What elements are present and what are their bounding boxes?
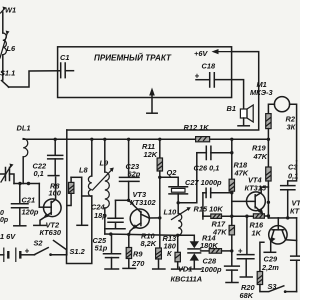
capacitor C26: [194, 146, 232, 172]
svg-text:+6V: +6V: [194, 49, 208, 58]
svg-text:1K: 1K: [252, 229, 262, 238]
node C31 bottom: [286, 216, 289, 219]
wire VT3 collector: [149, 217, 160, 219]
wire C24 to VT3 base: [116, 199, 129, 201]
node VT3 collector: [158, 216, 161, 219]
node Q2 bottom: [177, 201, 180, 204]
battery GB1: [0, 247, 30, 263]
+6V supply label and arrow: [194, 49, 232, 58]
svg-text:VD1: VD1: [178, 265, 192, 274]
capacitor C1: [60, 53, 74, 78]
wire L8 bottom tap: [82, 195, 92, 197]
transistor VT2: [39, 177, 62, 237]
svg-text:B1: B1: [227, 104, 236, 113]
wire tuned-circuit node: [14, 183, 39, 185]
capacitor C21: [12, 184, 39, 226]
wire power riser: [66, 130, 68, 255]
svg-text:МКЭ-3: МКЭ-3: [250, 88, 273, 97]
svg-text:К: К: [167, 249, 172, 258]
switch S2: [34, 239, 52, 257]
receiver block box: [58, 47, 232, 98]
wire oscillator common rail: [105, 234, 178, 235]
node R16 junction: [267, 214, 270, 217]
crystal Q2: [160, 168, 188, 203]
svg-text:0p: 0p: [0, 217, 9, 224]
svg-text:ПРИЕМНЫЙ ТРАКТ: ПРИЕМНЫЙ ТРАКТ: [94, 53, 172, 62]
microphone M1 МКЭ-3: [250, 80, 297, 161]
wire VT4/VT5 coupling: [268, 217, 296, 219]
wire S2 to power riser: [51, 254, 67, 256]
ground L8 tap: [77, 177, 88, 225]
resistor R15: [194, 205, 254, 220]
svg-text:8,2K: 8,2K: [141, 239, 157, 248]
wire L6 to S1.1: [2, 55, 4, 80]
svg-text:R9: R9: [133, 250, 143, 259]
wire varicap to R14: [201, 250, 210, 252]
resistor R8: [49, 177, 82, 205]
svg-text:120p: 120p: [22, 208, 39, 217]
svg-text:C27 1000p: C27 1000p: [185, 178, 222, 187]
svg-text:КТ: КТ: [290, 206, 300, 215]
svg-text:DL1: DL1: [17, 124, 31, 133]
transistor VT5: [269, 199, 303, 252]
switch S1.2: [54, 241, 86, 257]
svg-text:Q2: Q2: [167, 168, 178, 177]
svg-text:47K: 47K: [212, 228, 227, 237]
wire right column to C30: [296, 218, 298, 256]
resistor R18: [229, 161, 249, 192]
switch S1.1: [0, 69, 15, 88]
svg-text:12K: 12K: [144, 150, 158, 159]
svg-text:0: 0: [0, 210, 4, 217]
svg-text:270: 270: [131, 259, 145, 268]
node Q2 top: [158, 176, 161, 179]
inductor L8: [79, 139, 92, 196]
resistor R17: [212, 220, 235, 237]
resistor R16: [250, 214, 269, 238]
resistor R20: [240, 242, 269, 300]
transistor VT3: [129, 190, 157, 234]
capacitor C31: [281, 161, 299, 218]
svg-text:C26 0,1: C26 0,1: [194, 164, 220, 173]
resistor R14: [200, 234, 232, 254]
node VT4 collector junction: [267, 201, 270, 204]
wire C26 branch down: [178, 153, 197, 203]
svg-text:R12 1K: R12 1K: [184, 123, 210, 132]
resistor R12: [184, 123, 210, 142]
transistor VT4: [232, 176, 269, 215]
svg-text:1000p: 1000p: [201, 265, 222, 274]
svg-text:47K: 47K: [253, 152, 268, 161]
svg-text:0,1: 0,1: [34, 169, 44, 178]
svg-text:L8: L8: [79, 166, 89, 175]
resistor R9: [123, 234, 145, 268]
capacitor C18: [195, 62, 216, 88]
svg-text:1 6V: 1 6V: [0, 232, 16, 241]
capacitor C25: [93, 234, 121, 269]
trimmer capacitor (edge, cut): [0, 164, 14, 225]
svg-text:C1: C1: [60, 53, 69, 62]
node C29 tap: [245, 215, 248, 218]
svg-text:КВС111А: КВС111А: [171, 275, 203, 284]
wire main horizontal bus (bus2): [23, 138, 268, 140]
speaker B1: [227, 104, 254, 126]
wire battery to S2: [20, 254, 34, 256]
svg-text:W1: W1: [5, 6, 16, 15]
node VT3 base: [127, 199, 130, 202]
svg-text:L6: L6: [7, 44, 17, 53]
svg-text:2,2m: 2,2m: [261, 263, 279, 272]
resistor R2: [266, 114, 296, 140]
svg-text:R15 10K: R15 10K: [194, 205, 224, 214]
wire VT2 base riser: [38, 184, 40, 208]
inductor L6: [0, 31, 16, 59]
resistor R13: [163, 234, 184, 269]
node bus2 junctions: [54, 138, 271, 141]
wire S1.2 to L8 return: [67, 196, 92, 264]
wire C18 to speaker B1: [214, 80, 243, 109]
svg-text:47K: 47K: [234, 168, 249, 177]
wire antenna to L6: [2, 12, 4, 33]
svg-text:51p: 51p: [95, 244, 108, 253]
node rail junctions: [109, 232, 112, 235]
svg-text:18p: 18p: [94, 211, 107, 220]
resistor R11: [142, 139, 163, 248]
capacitor C28: [201, 257, 240, 283]
inductor L10: [164, 203, 191, 235]
wire main right column: [231, 139, 233, 265]
node column junctions: [230, 151, 233, 253]
inductor DL1: [17, 124, 31, 184]
node dots tuned circuit: [18, 182, 21, 185]
svg-text:S1.1: S1.1: [0, 69, 15, 78]
varicap VD1 КВС111А: [171, 235, 203, 283]
svg-text:3К: 3К: [287, 123, 296, 132]
node oscillator output arrow into receiver: [147, 88, 157, 114]
svg-text:C18: C18: [202, 62, 216, 71]
svg-text:КТ315: КТ315: [245, 184, 267, 193]
wire +6V rail (bus1): [67, 52, 259, 130]
svg-text:L10: L10: [164, 208, 178, 217]
inductor L9: [93, 139, 114, 234]
node L10 bottom: [176, 234, 179, 237]
svg-text:68K: 68K: [240, 291, 254, 300]
switch S3: [268, 282, 297, 293]
wire S1.1 to C1: [9, 71, 61, 87]
svg-text:S2: S2: [34, 239, 44, 248]
ground VT2 emitter: [34, 224, 46, 226]
capacitor C29: [237, 216, 279, 277]
capacitor C27: [185, 178, 232, 216]
svg-text:S1.2: S1.2: [70, 247, 86, 256]
capacitor C24: [91, 200, 125, 228]
resistor R19: [252, 139, 271, 218]
ground VT5 emitter: [264, 251, 275, 253]
resistor R10: [141, 231, 165, 269]
capacitor C22: [33, 139, 63, 178]
capacitor C30: [291, 256, 300, 292]
svg-text:КТ630: КТ630: [40, 228, 62, 237]
capacitor C23: [120, 139, 141, 200]
antenna W1: [1, 6, 17, 15]
